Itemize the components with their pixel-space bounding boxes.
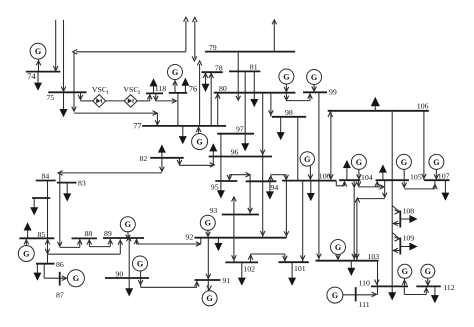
load at bus 75 <box>60 92 68 117</box>
node bus 92 <box>186 233 287 242</box>
svg-text:103: 103 <box>368 252 380 261</box>
svg-text:107: 107 <box>438 172 450 181</box>
generator G above bus 92 <box>200 215 215 230</box>
node bus 110 <box>359 278 409 287</box>
wire VSC2 to bus 118 with arrow <box>137 93 152 101</box>
wire G-111 line with arrow <box>343 292 376 297</box>
wire tie arrows pair <box>192 17 197 61</box>
load arrow up at bus 96 <box>209 143 217 156</box>
node bus 98 <box>272 108 306 117</box>
load at bus 103 <box>347 261 355 276</box>
svg-text:92: 92 <box>186 233 194 242</box>
wire G-85 with arrow <box>24 238 29 245</box>
load arrow up at bus 118 <box>150 78 158 93</box>
node bus 96 <box>209 148 272 157</box>
wire 80-99 jumper <box>284 92 312 100</box>
svg-text:89: 89 <box>104 229 112 238</box>
wire 77 up-tie <box>197 61 202 126</box>
node bus 105 <box>376 172 422 181</box>
svg-text:G: G <box>402 267 409 276</box>
node bus 102 <box>225 262 258 273</box>
node bus 79 <box>205 43 295 52</box>
wire 103-110 with arrow <box>375 261 380 295</box>
wire 118 to 76-77 line <box>154 93 177 103</box>
node bus 93 <box>210 206 260 215</box>
wire 76-G with arrow <box>173 80 178 93</box>
wire 80-96-92 long line <box>260 93 265 238</box>
wire G-104 with arrow <box>357 169 362 180</box>
generator G at bus 80 <box>279 69 294 84</box>
generator G above bus 112 <box>421 264 435 278</box>
wire 88-89 link <box>87 238 113 246</box>
svg-text:2: 2 <box>138 90 141 96</box>
svg-text:G: G <box>23 249 30 258</box>
svg-text:101: 101 <box>294 264 306 273</box>
load at bus 112 <box>431 286 439 303</box>
svg-text:VSC: VSC <box>123 85 138 94</box>
load at bus 95 <box>217 181 225 199</box>
svg-text:78: 78 <box>215 63 223 72</box>
svg-text:G: G <box>137 259 144 268</box>
node tap bar below 84 <box>32 197 50 199</box>
wire into 109 with arrow <box>392 233 400 242</box>
svg-text:105: 105 <box>410 172 422 181</box>
wire 100-101 with arrow <box>300 181 305 263</box>
load arrow up at bus 82 <box>158 144 166 157</box>
svg-text:G: G <box>125 220 132 229</box>
wire G-99 with arrow <box>312 85 317 93</box>
svg-text:76: 76 <box>189 85 197 94</box>
wire 89-92 link <box>134 238 201 247</box>
svg-text:83: 83 <box>78 179 86 188</box>
wire 84-85 <box>45 181 50 245</box>
wire 102-101 bracket <box>248 254 287 262</box>
node bus 77 <box>133 121 226 130</box>
wire 97-96-95 <box>220 134 222 181</box>
svg-text:G: G <box>311 73 318 82</box>
wire G-77 with arrow <box>196 126 201 134</box>
wire G-89 with arrow <box>126 232 131 241</box>
node bus 104 <box>339 173 373 182</box>
svg-text:G: G <box>172 68 179 77</box>
wire into 108 with arrow <box>392 206 400 215</box>
generator G above bus 110 <box>398 264 412 278</box>
svg-text:1: 1 <box>106 90 109 96</box>
generator G above bus 89 <box>120 217 135 232</box>
node bus 97 <box>217 125 254 134</box>
svg-text:G: G <box>332 291 339 300</box>
wire 79 up-tie <box>272 20 277 52</box>
load at bus 83 <box>63 183 71 202</box>
wire 79-80 with arrow <box>236 52 241 101</box>
wire 80-98 with arrow <box>269 93 274 117</box>
svg-text:91: 91 <box>223 276 231 285</box>
generator G above bus 103 <box>331 240 346 255</box>
wire 100-104 link <box>336 180 347 186</box>
node bus 99 <box>303 87 337 96</box>
node bus 80 <box>214 84 296 93</box>
load arrow up at bus 104 <box>343 160 351 180</box>
wire 106-107 <box>422 111 427 180</box>
node bus 103 <box>316 252 380 261</box>
svg-text:99: 99 <box>329 87 337 96</box>
node bus 86 <box>36 260 64 269</box>
svg-text:106: 106 <box>417 102 429 111</box>
svg-text:G: G <box>356 158 363 167</box>
wire G-90 and 90-91 link <box>138 271 199 287</box>
wire 105-103 link <box>355 180 387 261</box>
load at bus 97 <box>241 134 249 152</box>
svg-text:112: 112 <box>443 283 455 292</box>
load at bus 81 <box>250 71 258 107</box>
load arrow up at bus 105 <box>379 164 387 180</box>
load right at bus 108 <box>400 215 417 223</box>
load arrow up at bus 76 <box>181 78 189 93</box>
svg-text:97: 97 <box>236 125 244 134</box>
svg-text:102: 102 <box>243 264 255 273</box>
wire 94-100 bracket <box>268 175 288 182</box>
wire G-92 with arrow <box>206 230 211 237</box>
svg-text:108: 108 <box>403 206 415 215</box>
load at bus 102 <box>238 262 246 285</box>
load at bus 90 <box>125 278 133 297</box>
wire G-107 with arrow <box>434 169 439 180</box>
wire 109 return with arrow <box>392 248 400 253</box>
wire 100-92 <box>284 181 289 238</box>
wire 77-78 <box>209 72 214 126</box>
node bus 89 <box>103 229 144 238</box>
svg-text:77: 77 <box>133 121 141 130</box>
wire 81-97 <box>244 71 246 133</box>
svg-text:G: G <box>73 274 80 283</box>
wire 77-80 with arrow <box>215 93 220 126</box>
svg-text:111: 111 <box>359 300 370 309</box>
svg-text:75: 75 <box>47 93 55 102</box>
converter VSC1 <box>92 85 109 107</box>
node bus 101 <box>279 262 309 273</box>
generator G at bus 85 <box>18 246 34 262</box>
wire 104-105 link <box>356 180 384 189</box>
load at bus 77 <box>179 126 187 144</box>
svg-text:G: G <box>433 158 440 167</box>
node bus 118 <box>146 84 166 93</box>
svg-text:80: 80 <box>219 84 227 93</box>
svg-text:94: 94 <box>271 183 279 192</box>
svg-text:85: 85 <box>38 230 46 239</box>
wire 104-103 <box>352 180 357 261</box>
node bus 108 bar <box>400 206 414 227</box>
wire tie-line into bus 75 <box>61 20 66 93</box>
node bus 112 <box>416 283 454 292</box>
wire 89-90 <box>128 238 130 278</box>
svg-text:G: G <box>304 155 311 164</box>
load at bus 94 <box>266 181 274 199</box>
wire 99-103 long line <box>317 92 322 260</box>
svg-text:96: 96 <box>231 148 239 157</box>
generator G at bus 111 <box>327 287 343 303</box>
svg-text:G: G <box>283 72 290 81</box>
generator G below bus 91 <box>202 291 217 306</box>
svg-text:87: 87 <box>56 291 64 300</box>
node bus 90 <box>105 269 149 278</box>
svg-text:82: 82 <box>140 154 148 163</box>
svg-text:88: 88 <box>85 229 93 238</box>
wire tie-line into bus 74 <box>53 20 58 72</box>
svg-text:100: 100 <box>319 172 331 181</box>
wire 108 return with arrow <box>392 221 400 226</box>
node bus 107 <box>424 172 449 181</box>
wire 82-88 long link <box>58 158 165 248</box>
load arrow up at bus 85 <box>24 222 32 238</box>
node bus 84 <box>36 171 56 180</box>
wire bus75 to VSC with arrow <box>78 92 93 101</box>
svg-text:G: G <box>205 219 212 228</box>
wire G-103 with arrow <box>336 255 341 261</box>
svg-text:90: 90 <box>116 269 124 278</box>
wire 110-112 link <box>404 286 428 294</box>
svg-text:VSC: VSC <box>92 85 107 94</box>
load right at bus 109 <box>400 243 417 251</box>
wire 110-G with arrow <box>402 278 407 286</box>
svg-text:74: 74 <box>27 72 36 81</box>
node bus 95 <box>211 181 238 192</box>
wire 98-100 <box>297 117 299 181</box>
wire G-80 with arrow <box>284 84 289 93</box>
wire 82-96 link <box>177 157 214 168</box>
load at bus 86 <box>33 264 41 281</box>
wire 85-86 <box>47 254 49 264</box>
svg-text:104: 104 <box>361 173 373 182</box>
node bus 76 <box>169 85 197 94</box>
node bus 111 bar <box>356 287 370 309</box>
generator G above bus 100 <box>300 152 314 166</box>
wire G-74 with arrow <box>36 59 41 71</box>
node bus 82 <box>140 154 184 163</box>
generator G at bus 87 <box>67 270 84 287</box>
svg-text:93: 93 <box>210 206 218 215</box>
svg-text:110: 110 <box>359 278 371 287</box>
wire 105-107 link <box>402 169 437 189</box>
generator G at bus 105 <box>396 154 411 169</box>
node bus 78 <box>202 63 223 72</box>
wire 106-100 <box>328 111 333 181</box>
load at bus 101 <box>288 262 296 286</box>
generator G above bus 90 <box>133 256 148 271</box>
generator G at bus 99 <box>307 70 322 85</box>
node bus 109 bar <box>400 234 414 255</box>
generator G at bus 76 <box>168 65 183 80</box>
load at bus 107 <box>441 180 449 201</box>
converter VSC2 <box>123 85 140 107</box>
svg-text:G: G <box>335 243 342 252</box>
svg-text:G: G <box>35 47 42 56</box>
svg-text:81: 81 <box>250 63 258 72</box>
node bus 85 <box>19 230 54 239</box>
node bus 83 <box>57 179 86 188</box>
node bus 87 bar <box>56 272 64 300</box>
generator G below bus 77 <box>192 134 208 150</box>
wire G-100 with arrow and load <box>307 166 315 202</box>
wire 92-91-G <box>206 238 212 291</box>
svg-text:84: 84 <box>42 171 50 180</box>
wire 95-93 bracket <box>227 172 252 214</box>
node bus 88 <box>72 229 98 238</box>
load at bus 98 <box>277 117 285 141</box>
wire 86-87 link <box>44 264 67 281</box>
node bus 94 <box>246 181 279 192</box>
node bus 100 <box>282 172 336 181</box>
wire corner line to bus 77 <box>72 52 160 124</box>
load at bus 78 with arrow <box>202 72 210 92</box>
load at tap bar <box>30 198 38 216</box>
wire 76-77 <box>177 93 179 126</box>
generator G at bus 104 <box>351 154 366 169</box>
node bus 81 <box>229 63 260 72</box>
node bus 106 <box>328 102 429 111</box>
svg-text:G: G <box>196 138 203 147</box>
svg-text:86: 86 <box>56 260 64 269</box>
load arrow up at bus 106 <box>371 97 380 111</box>
svg-text:79: 79 <box>209 43 217 52</box>
svg-text:G: G <box>206 294 213 303</box>
svg-text:G: G <box>425 267 432 276</box>
wire 85-89 long link <box>45 238 122 254</box>
svg-text:95: 95 <box>211 183 219 192</box>
node bus 75 <box>47 92 87 102</box>
node bus 91 <box>195 276 231 285</box>
svg-text:109: 109 <box>403 234 415 243</box>
load at bus 74 <box>34 72 42 91</box>
wire VSC1-VSC2 <box>106 100 125 102</box>
wire G-112 with arrow <box>426 278 431 286</box>
wire long tie with left arrow <box>73 17 189 54</box>
svg-text:G: G <box>401 158 408 167</box>
svg-text:98: 98 <box>285 108 293 117</box>
wire 92-95 arrow line <box>232 197 237 263</box>
load at bus 92 <box>214 238 222 252</box>
generator G at bus 107 <box>429 154 444 169</box>
generator G at bus 74 <box>30 43 46 59</box>
wire 106-108-109 long line <box>388 111 396 301</box>
node bus 74 <box>26 72 61 82</box>
